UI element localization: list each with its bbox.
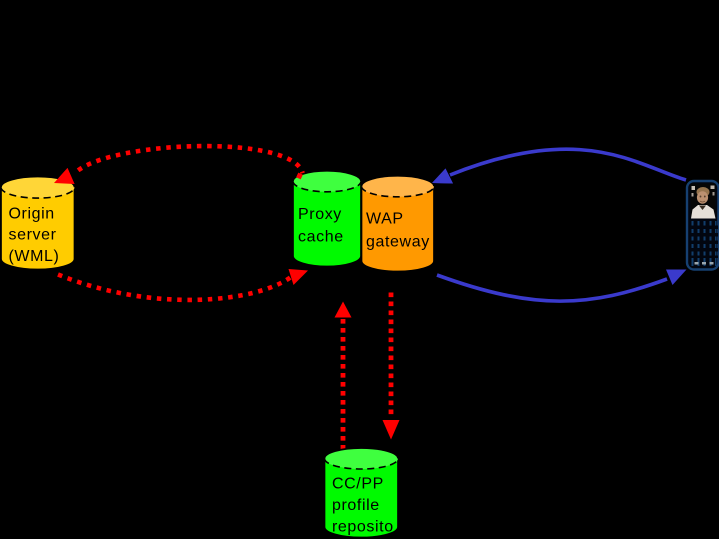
svg-text:cache: cache xyxy=(298,229,344,246)
svg-text:gateway: gateway xyxy=(366,234,430,251)
svg-text:profile: profile xyxy=(332,497,380,514)
svg-text:server: server xyxy=(9,227,57,244)
svg-text:CC/PP: CC/PP xyxy=(332,476,384,493)
svg-text:Origin: Origin xyxy=(9,206,55,223)
svg-text:Proxy: Proxy xyxy=(298,206,342,223)
svg-text:(WML): (WML) xyxy=(9,248,60,265)
svg-text:reposito: reposito xyxy=(332,519,394,536)
svg-text:WAP: WAP xyxy=(366,211,404,228)
